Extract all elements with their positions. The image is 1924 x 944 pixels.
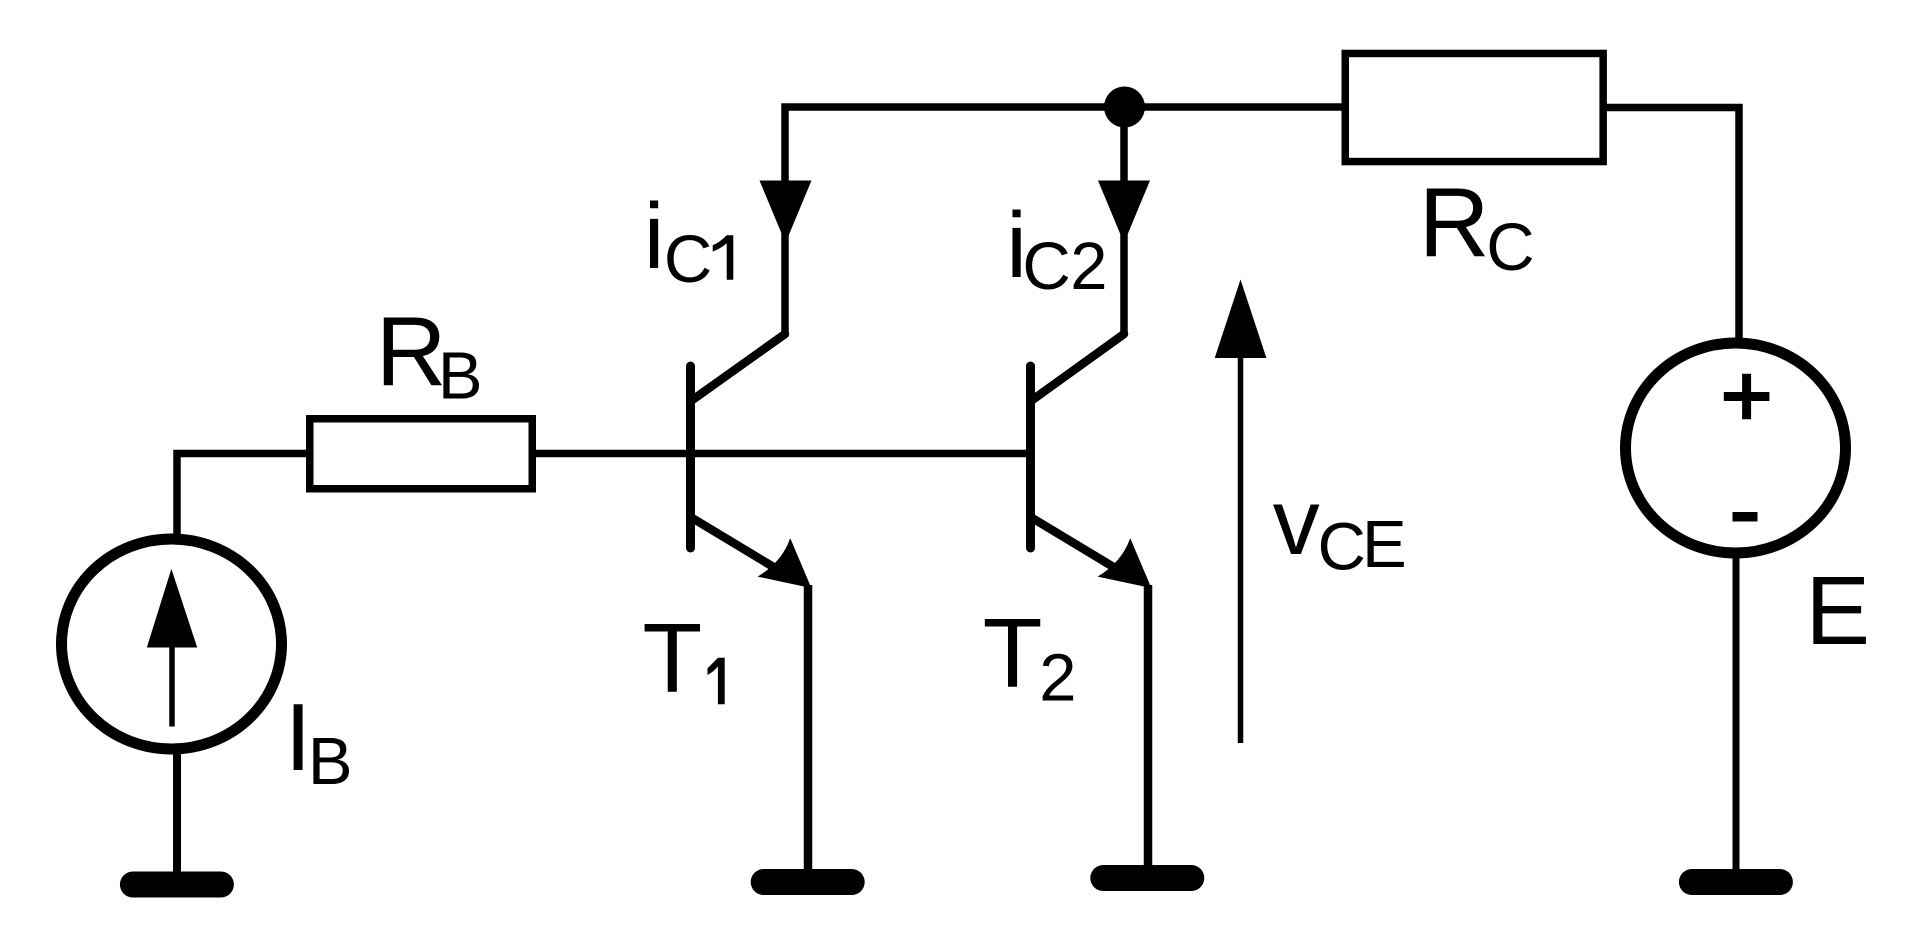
wire junction to T2 collector	[1120, 107, 1128, 334]
arrow vCE head	[1215, 280, 1267, 359]
transistor T1 emitter arrowhead	[758, 538, 812, 588]
transistor T2 base bar	[1026, 366, 1035, 548]
ground E	[1692, 869, 1780, 895]
arrow iC1	[760, 181, 812, 244]
transistor T2 collector diagonal	[1033, 334, 1124, 400]
ground IB	[133, 872, 221, 898]
svg-text:E: E	[1362, 507, 1407, 582]
plus sign	[1724, 374, 1770, 420]
IB arrow head	[147, 569, 197, 648]
svg-text:T: T	[983, 598, 1043, 708]
arrow iC2	[1098, 181, 1150, 244]
svg-text:T: T	[642, 603, 702, 713]
arrow vCE shaft	[1238, 352, 1244, 743]
wire IB bottom to ground	[173, 752, 181, 875]
svg-text:R: R	[1419, 167, 1490, 277]
wire E bottom to ground	[1733, 550, 1740, 872]
wire IB top to RB	[177, 454, 309, 539]
transistor T1 emitter diagonal	[693, 519, 792, 579]
svg-text:2: 2	[1039, 641, 1076, 716]
transistor T2 emitter arrowhead	[1098, 538, 1152, 588]
transistor T2 emitter diagonal	[1033, 519, 1132, 579]
svg-text:B: B	[308, 724, 353, 799]
minus sign	[1733, 512, 1758, 522]
wire T1 collector up and top wire to RC	[785, 107, 1345, 334]
svg-text:E: E	[1805, 556, 1870, 665]
transistor T1 base bar	[686, 366, 695, 548]
wire T2 emitter to ground	[1144, 585, 1153, 868]
svg-text:B: B	[438, 339, 483, 414]
svg-text:C: C	[664, 222, 712, 297]
svg-text:C: C	[1022, 229, 1070, 304]
wire T1 emitter to ground	[804, 585, 813, 872]
transistor T1 collector diagonal	[693, 334, 785, 400]
resistor RC	[1345, 53, 1603, 161]
resistor RB	[310, 419, 533, 489]
wire base RB to T2	[532, 450, 1029, 458]
ground T2	[1103, 865, 1191, 891]
svg-text:i: i	[644, 184, 665, 288]
junction dot	[1104, 87, 1145, 128]
svg-text:R: R	[376, 296, 447, 406]
svg-text:C: C	[1486, 210, 1534, 285]
wire RC to E source	[1603, 108, 1739, 341]
svg-text:v: v	[1273, 469, 1320, 574]
IB arrow shaft	[169, 640, 175, 727]
current source IB	[62, 539, 282, 749]
source E circle	[1626, 343, 1846, 553]
svg-text:C: C	[1318, 509, 1366, 584]
ground T1	[764, 869, 852, 895]
svg-text:2: 2	[1070, 229, 1107, 304]
